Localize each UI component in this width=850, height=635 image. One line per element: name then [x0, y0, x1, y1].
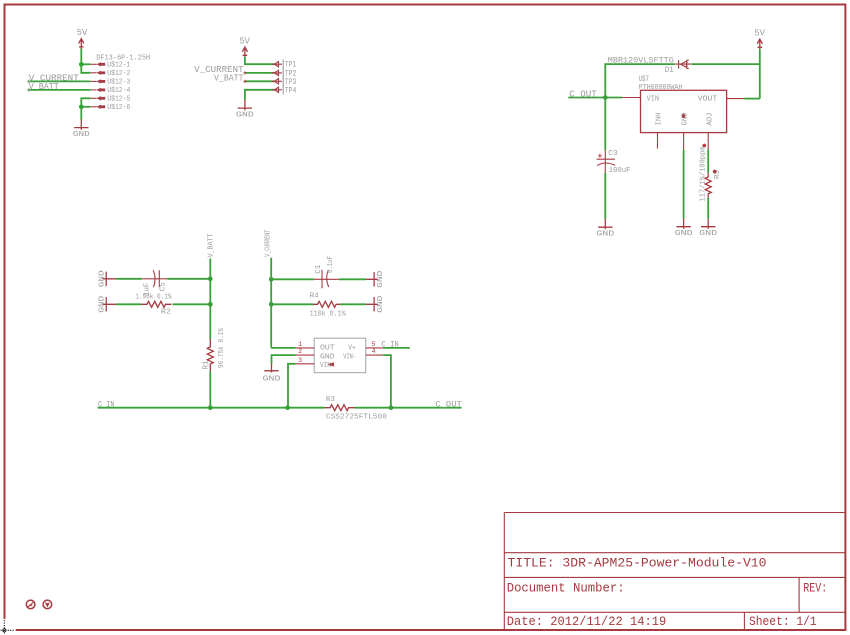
label origin cross V_CURRENT: [27, 79, 31, 83]
svg-text:U$12-5: U$12-5: [107, 96, 130, 104]
svg-text:GND: GND: [263, 375, 282, 383]
svg-text:GND: GND: [596, 230, 615, 238]
svg-text:1: 1: [298, 341, 302, 348]
svg-text:GND: GND: [320, 353, 335, 361]
wire pin3 to bottom rail: [288, 364, 296, 408]
svg-text:GND: GND: [73, 131, 91, 139]
wire diode top run: [605, 64, 760, 97]
svg-text:C1: C1: [315, 265, 323, 274]
wire C_OUT to VIN: [568, 97, 622, 99]
wire V_BATT to TP3: [245, 80, 274, 82]
label origin cross TP2: [243, 71, 246, 74]
wire V_CURRENT to pin3: [28, 80, 91, 82]
capacitor C5: [142, 270, 167, 296]
wire C3 to GND: [604, 173, 606, 219]
sensor U$? body: [314, 338, 366, 372]
svg-text:GND: GND: [377, 270, 385, 288]
wire GND pin down: [683, 150, 685, 219]
pin 3 stub: [296, 363, 314, 365]
resistor R1 (vertical): [202, 327, 226, 371]
svg-text:GND: GND: [99, 270, 107, 288]
diode D1: [665, 60, 691, 75]
svg-text:V+: V+: [348, 345, 356, 353]
mark circle 2: [43, 600, 52, 609]
svg-text:R4: R4: [310, 292, 319, 300]
svg-text:GND: GND: [675, 230, 694, 238]
svg-text:GND: GND: [377, 295, 385, 313]
ERC mark near R5 name: [713, 170, 717, 174]
wire bottom rail C_IN: [98, 407, 325, 409]
pin 1 stub: [296, 347, 314, 349]
node junction rail/R1: [208, 405, 213, 410]
wire R3 to C_OUT: [355, 407, 462, 409]
wire pin5 C_IN stub: [383, 347, 410, 349]
capacitor C3 (polarized): [597, 150, 631, 175]
pin 5 stub: [366, 347, 383, 349]
svg-text:Sheet: 1/1: Sheet: 1/1: [749, 614, 817, 629]
ground symbol left of R2 (rotated): [99, 295, 116, 313]
svg-text:VIN: VIN: [647, 96, 660, 104]
wire pin5 to junction: [81, 98, 90, 107]
svg-text:5V: 5V: [239, 35, 250, 46]
svg-text:V_BATT: V_BATT: [208, 233, 216, 257]
svg-text:C_OUT: C_OUT: [435, 400, 462, 410]
svg-text:C5: C5: [159, 282, 167, 291]
svg-text:TITLE: 3DR-APM25-Power-Module: TITLE: 3DR-APM25-Power-Module-V10: [508, 555, 767, 570]
wire GND to C5: [116, 278, 142, 280]
svg-text:GND: GND: [699, 230, 718, 238]
svg-text:2: 2: [298, 348, 302, 355]
wire C_OUT node down to C3: [604, 98, 606, 151]
svg-text:5: 5: [372, 341, 376, 348]
wire V_BATT down: [209, 259, 211, 339]
wire 5V to TP1: [245, 57, 274, 64]
svg-text:R3: R3: [326, 396, 335, 404]
ground symbol right of R4 (rotated): [366, 295, 385, 313]
svg-text:OUT: OUT: [320, 345, 335, 353]
pin INH stub (unconnected): [657, 133, 659, 149]
pin U$12-6: [90, 104, 130, 112]
testpoint TP3: [272, 77, 297, 87]
resistor R4: [310, 292, 346, 318]
svg-text:R1: R1: [202, 360, 210, 369]
node junction divider mid: [208, 302, 213, 307]
ground symbol sensor: [263, 364, 282, 383]
wire pin2 to GND: [272, 355, 296, 364]
pin ADJ stub: [707, 133, 709, 150]
pin GND stub: [683, 133, 685, 150]
svg-text:INH: INH: [655, 113, 663, 126]
ERC mark above R5 value: [702, 144, 706, 148]
wire ADJ to R5: [707, 150, 709, 174]
sheet origin dotted crosshair: [1, 620, 15, 634]
resistor R5 (vertical): [705, 173, 711, 198]
wire TP4 to GND: [245, 90, 274, 100]
wire junction to GND: [80, 107, 82, 120]
wire junction to C1: [271, 278, 314, 280]
node junction pin5/pin6: [79, 104, 84, 109]
node junction pin1/pin2: [79, 62, 84, 67]
wire 5V to junction: [80, 49, 82, 65]
label origin cross TP3: [243, 80, 246, 83]
node junction filter top: [269, 277, 274, 282]
wire V_CURRENT to TP2: [245, 72, 274, 74]
svg-text:VIN-: VIN-: [343, 353, 356, 361]
svg-text:Document Number:: Document Number:: [507, 581, 625, 596]
node junction C_OUT/C3: [603, 95, 608, 100]
svg-text:U$12-2: U$12-2: [107, 70, 130, 78]
svg-text:5V: 5V: [754, 27, 765, 38]
ground symbol TP: [236, 100, 255, 119]
mark circle 1: [26, 600, 35, 609]
wire GND to R2: [116, 303, 141, 305]
testpoint TP2: [272, 68, 297, 78]
pin VOUT stub: [727, 98, 745, 100]
svg-text:D1: D1: [665, 66, 674, 75]
node junction rail/pin3: [285, 405, 290, 410]
resistor R2: [135, 294, 172, 317]
wire VOUT to 5V rail: [744, 98, 760, 100]
resistor R3 (shunt): [325, 396, 388, 421]
svg-text:MBR120VLSFTTG: MBR120VLSFTTG: [608, 57, 674, 66]
svg-text:TP4: TP4: [285, 86, 297, 95]
wire junction to pin1: [81, 63, 90, 65]
testpoint TP4: [272, 85, 297, 95]
pin 4 stub: [366, 354, 383, 356]
pin U$12-1: [90, 62, 130, 70]
svg-text:REV:: REV:: [803, 581, 827, 596]
op-amp U$7 body: [641, 90, 727, 132]
svg-text:96.75k 0.1%: 96.75k 0.1%: [218, 327, 226, 368]
svg-text:U$7: U$7: [639, 74, 649, 84]
ground symbol under C3: [596, 219, 615, 238]
wire V_BATT to pin4: [28, 89, 91, 91]
ERC mark on GND pin: [682, 114, 686, 118]
supply 5V symbol: [77, 27, 88, 49]
wire 5V vertical to VOUT: [759, 49, 761, 99]
node junction rail/pin4: [389, 405, 394, 410]
wire R5 to GND: [707, 198, 709, 219]
capacitor C1: [314, 256, 339, 288]
ground symbol connector: [73, 120, 91, 139]
svg-text:3: 3: [298, 357, 302, 364]
node junction filter mid: [269, 302, 274, 307]
supply 5V symbol TP: [239, 35, 250, 57]
svg-text:GND: GND: [236, 111, 255, 119]
wire C5 to junction: [167, 278, 210, 280]
svg-text:U$12-1: U$12-1: [107, 62, 130, 70]
wire V_CURRENT down to pin1: [270, 258, 272, 348]
svg-text:Date: 2012/11/22 14:19: Date: 2012/11/22 14:19: [507, 614, 667, 629]
wire junction to pin6: [81, 106, 90, 108]
pin 2 stub: [296, 354, 314, 356]
wire C1 to GND: [339, 278, 366, 280]
pin U$12-2: [90, 70, 130, 78]
wire junction to R4: [271, 303, 313, 305]
svg-text:110k 0.1%: 110k 0.1%: [310, 310, 346, 318]
svg-text:U$12-4: U$12-4: [107, 87, 130, 95]
svg-text:100uF: 100uF: [609, 167, 631, 175]
svg-text:ADJ: ADJ: [707, 113, 715, 126]
svg-text:V_BATT: V_BATT: [214, 73, 244, 84]
svg-text:C3: C3: [608, 150, 618, 158]
svg-text:TP1: TP1: [285, 61, 297, 70]
svg-text:117/1%/100ppm: 117/1%/100ppm: [699, 147, 707, 202]
svg-text:5V: 5V: [77, 27, 88, 38]
arrow mark VIN+: [328, 362, 334, 366]
wire pin4 to shunt output: [383, 355, 391, 408]
title block frame: [504, 513, 845, 630]
svg-text:VOUT: VOUT: [698, 96, 718, 104]
svg-text:V_CURRENT: V_CURRENT: [265, 229, 273, 256]
wire pin1 to V_CURRENT: [271, 347, 296, 349]
ground symbol right of C1 (rotated): [366, 270, 385, 288]
pin U$12-3: [90, 79, 130, 87]
wire R2 to junction: [173, 303, 211, 305]
wire pin2 to junction: [81, 64, 90, 73]
wire R4 to GND: [340, 303, 366, 305]
svg-text:GND: GND: [99, 295, 107, 313]
svg-text:U$12-6: U$12-6: [107, 104, 130, 112]
ground symbol under R5: [699, 219, 718, 238]
node junction divider top: [208, 276, 213, 281]
svg-text:U$12-3: U$12-3: [107, 79, 130, 87]
pin VIN stub: [622, 97, 640, 99]
testpoint TP1: [272, 59, 297, 69]
svg-text:4: 4: [372, 348, 376, 355]
label origin cross V_BATT: [27, 88, 31, 92]
svg-text:1.96k 0.1%: 1.96k 0.1%: [135, 294, 172, 302]
svg-text:0.1uF: 0.1uF: [327, 256, 335, 273]
svg-text:CSS2725FTL500: CSS2725FTL500: [326, 413, 387, 421]
ground symbol left of C5 (rotated): [99, 270, 116, 288]
pin U$12-5: [90, 96, 130, 104]
wire R1 to bottom rail: [209, 371, 211, 408]
svg-text:R2: R2: [161, 309, 171, 317]
pin U$12-4: [90, 87, 130, 95]
ground symbol under GND pin: [675, 219, 694, 238]
supply 5V symbol (right): [754, 27, 765, 49]
